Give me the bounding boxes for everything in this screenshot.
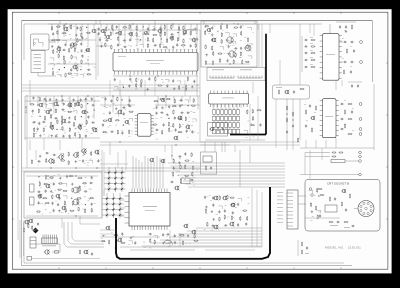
resistor R129	[205, 44, 206, 49]
resistor R232	[231, 204, 236, 205]
value label	[132, 82, 133, 85]
wire	[279, 60, 281, 85]
value label	[342, 57, 344, 60]
resistor R111	[173, 110, 174, 115]
IF shield box	[31, 51, 45, 73]
capacitor C51	[61, 109, 65, 111]
node junction	[112, 29, 113, 30]
resistor R146	[252, 116, 253, 121]
capacitor C125	[82, 159, 84, 163]
node junction	[79, 39, 80, 40]
resistor R176	[53, 159, 54, 164]
capacitor C113	[350, 70, 352, 74]
value label	[37, 128, 38, 131]
value label	[210, 199, 212, 202]
wire	[373, 84, 375, 150]
value label	[153, 107, 155, 110]
resistor R38	[110, 31, 111, 36]
value label	[186, 242, 187, 245]
value label	[118, 73, 119, 76]
wire	[80, 75, 84, 78]
wire	[23, 222, 25, 256]
wire	[115, 167, 117, 192]
capacitor C132	[45, 190, 47, 194]
value label	[217, 31, 219, 34]
value label	[143, 241, 145, 244]
resistor R198	[72, 201, 73, 206]
value label	[103, 112, 105, 115]
value label	[44, 203, 46, 206]
wire	[183, 180, 285, 182]
value label	[38, 164, 39, 167]
wire	[48, 23, 96, 25]
node junction	[87, 95, 88, 96]
value label	[35, 228, 37, 231]
wire	[109, 80, 111, 96]
value label	[132, 133, 133, 136]
resistor R158	[311, 66, 316, 67]
resistor R177	[60, 160, 65, 161]
node junction	[59, 52, 60, 53]
diode D10	[107, 187, 111, 191]
resistor R203	[84, 208, 85, 213]
capacitor C110	[343, 61, 347, 63]
capacitor C124	[37, 160, 41, 162]
resistor R219	[180, 235, 185, 236]
sub-circuit outline	[201, 152, 217, 174]
wire	[254, 21, 256, 25]
wire	[119, 193, 121, 218]
resistor R91	[69, 127, 70, 132]
wire	[22, 87, 200, 89]
value label	[56, 71, 58, 74]
capacitor C139	[53, 209, 55, 213]
value label	[171, 171, 173, 174]
resistor R163	[348, 118, 353, 119]
node junction	[47, 175, 48, 176]
capacitor C86	[174, 128, 176, 132]
wire	[309, 150, 311, 179]
wire	[204, 142, 206, 152]
value label	[304, 103, 306, 106]
node junction	[38, 176, 39, 177]
value label	[157, 48, 158, 51]
resistor R65	[140, 83, 141, 88]
resistor R120	[204, 26, 209, 27]
capacitor C1	[76, 26, 78, 30]
capacitor C65	[110, 99, 112, 103]
ground	[80, 50, 82, 53]
wire	[339, 41, 343, 43]
capacitor C26	[117, 43, 119, 47]
wire	[22, 20, 372, 22]
wire	[216, 104, 218, 108]
value label	[277, 218, 283, 221]
value label	[194, 42, 196, 45]
value label	[121, 130, 123, 133]
value label	[190, 30, 191, 33]
wire	[237, 198, 241, 201]
diode D8	[114, 182, 118, 186]
capacitor C15	[159, 27, 161, 31]
diode D21	[118, 208, 122, 212]
value label	[168, 73, 169, 76]
resistor R251	[329, 221, 334, 222]
value label	[184, 90, 185, 93]
value label	[344, 226, 350, 229]
transistor Q16	[38, 103, 43, 108]
value label	[137, 73, 138, 76]
value label	[86, 128, 88, 131]
value label	[164, 73, 165, 76]
wire	[32, 258, 101, 260]
transistor Q24	[61, 119, 66, 124]
resistor R123	[233, 27, 238, 28]
resistor R162	[348, 103, 353, 104]
ferrite bead FB1	[164, 241, 171, 244]
wire	[200, 144, 300, 146]
value label	[205, 26, 207, 29]
value label	[61, 118, 63, 121]
resistor R170	[68, 152, 69, 157]
value label	[82, 154, 84, 157]
wire	[305, 217, 340, 219]
value label	[142, 33, 144, 36]
value label	[222, 97, 234, 100]
wire	[104, 96, 106, 108]
value label	[258, 132, 259, 135]
resistor R131	[247, 44, 248, 49]
value label	[81, 111, 83, 114]
wire	[244, 131, 248, 134]
wire	[29, 140, 31, 150]
value label	[230, 45, 231, 48]
value label	[100, 42, 102, 45]
capacitor C102	[304, 45, 308, 47]
capacitor C158	[212, 203, 214, 207]
section outline	[24, 172, 102, 218]
resistor R84	[61, 120, 62, 125]
node junction	[58, 105, 59, 106]
wire	[48, 63, 96, 65]
connector pin P3	[359, 103, 362, 106]
resistor R144	[252, 109, 253, 114]
resistor R21	[64, 60, 65, 65]
resistor R160	[346, 49, 347, 54]
resistor R11	[56, 39, 61, 40]
transistor Q59	[117, 238, 122, 243]
capacitor C53	[87, 115, 89, 119]
microcontroller U6	[125, 189, 171, 231]
value label	[60, 128, 62, 131]
value label	[73, 125, 75, 128]
resistor R216	[28, 223, 29, 228]
resistor R175	[46, 158, 47, 163]
value label	[55, 189, 56, 192]
wire	[341, 80, 343, 86]
wire	[305, 152, 330, 154]
wire	[74, 64, 78, 67]
capacitor C8	[81, 54, 83, 58]
wire	[301, 36, 303, 72]
diode D18	[118, 202, 122, 206]
resistor R238	[240, 216, 241, 221]
value label	[73, 107, 74, 110]
resistor R249	[341, 202, 342, 207]
value label	[69, 72, 71, 75]
value label	[57, 47, 59, 50]
resistor R16	[68, 48, 69, 53]
resistor R237	[231, 215, 232, 220]
resistor R209	[185, 164, 186, 169]
capacitor C121	[305, 124, 307, 128]
resistor R14	[73, 44, 78, 45]
value label	[84, 162, 86, 165]
resistor R27	[86, 74, 91, 75]
value label	[277, 191, 283, 194]
value label	[88, 197, 90, 200]
jack J1	[27, 257, 32, 261]
wire	[151, 242, 262, 244]
node junction	[94, 110, 95, 111]
wire	[115, 113, 119, 116]
svg-text:MODEL NO. : 21SL/51: MODEL NO. : 21SL/51	[325, 246, 361, 250]
capacitor C117	[340, 118, 344, 120]
value label	[39, 202, 41, 205]
resistor R235	[219, 217, 220, 222]
resistor R254	[310, 202, 311, 207]
node junction	[45, 100, 46, 101]
capacitor C34	[148, 77, 150, 81]
wire	[74, 73, 78, 76]
ground	[161, 106, 163, 109]
value label	[74, 66, 75, 69]
value label	[240, 39, 242, 42]
diode D3	[120, 171, 124, 175]
resistor R136	[205, 60, 206, 65]
transistor Q33	[226, 36, 234, 43]
fuse F1	[55, 251, 59, 254]
value label	[252, 136, 254, 139]
ground	[71, 183, 73, 186]
capacitor C43	[73, 98, 75, 102]
value label	[249, 42, 251, 45]
value label	[73, 110, 75, 113]
value label	[67, 104, 69, 107]
diode D9	[120, 182, 124, 186]
value label	[55, 200, 56, 203]
wire	[309, 24, 311, 33]
inductor L1	[331, 160, 345, 163]
value label	[166, 48, 168, 51]
resistor R143	[247, 109, 248, 114]
value label	[84, 38, 85, 41]
resistor R161	[343, 70, 344, 75]
value label	[128, 243, 130, 246]
wire	[150, 160, 152, 189]
value label	[192, 160, 194, 163]
value label	[344, 123, 346, 126]
value label	[179, 233, 181, 236]
wire	[139, 45, 143, 48]
value label	[87, 56, 89, 59]
value label	[34, 67, 42, 70]
resistor R212	[184, 175, 189, 176]
value label	[179, 131, 181, 134]
value label	[196, 48, 197, 51]
connector pin P8	[359, 155, 362, 158]
wire	[142, 24, 144, 45]
wire	[102, 198, 124, 200]
value label	[133, 48, 134, 51]
transistor Q6	[91, 29, 96, 34]
ground	[50, 135, 52, 138]
wire	[200, 141, 300, 143]
value label	[145, 73, 146, 76]
value label	[69, 25, 71, 28]
wire	[103, 152, 105, 196]
resistor R206	[173, 158, 174, 163]
wire	[228, 104, 230, 108]
capacitor C42	[55, 98, 57, 102]
wire	[299, 99, 301, 140]
wire	[214, 142, 216, 152]
capacitor C45	[84, 98, 88, 100]
diode D6	[120, 176, 124, 180]
wire	[53, 96, 55, 114]
value label	[63, 129, 64, 132]
value label	[180, 48, 181, 51]
resistor R208	[180, 165, 181, 170]
resistor R47	[147, 37, 148, 42]
wire	[96, 23, 200, 25]
value label	[189, 129, 190, 132]
transistor Q45	[94, 150, 100, 155]
value label	[194, 184, 195, 187]
tuner module outline	[31, 34, 50, 50]
wire	[104, 177, 126, 179]
capacitor C83	[179, 117, 183, 119]
wire	[75, 24, 77, 49]
resistor R6	[57, 30, 58, 35]
value label	[247, 43, 248, 46]
resistor R250	[349, 194, 350, 199]
wire	[247, 27, 251, 30]
value label	[122, 124, 124, 127]
value label	[277, 199, 283, 202]
transistor Q13	[169, 36, 174, 41]
value label	[39, 115, 41, 118]
resistor R130	[212, 46, 213, 51]
resistor R83	[57, 119, 58, 124]
value label	[250, 123, 251, 126]
value label	[116, 246, 118, 249]
wire	[104, 188, 126, 190]
wire	[142, 245, 262, 247]
value label	[350, 65, 352, 68]
wire	[177, 81, 181, 84]
resistor R57	[163, 47, 168, 48]
value label	[94, 100, 95, 103]
resistor R195	[89, 198, 94, 199]
resistor R90	[62, 126, 63, 131]
resistor R151	[286, 118, 287, 123]
resistor R97	[117, 97, 118, 102]
value label	[119, 31, 120, 33]
transistor Q39	[284, 90, 289, 95]
value label	[146, 59, 164, 62]
resistor R56	[160, 43, 161, 48]
transistor Q42	[58, 154, 64, 159]
wire	[205, 249, 255, 251]
wire	[73, 111, 77, 114]
capacitor C120	[309, 104, 311, 108]
wire	[61, 218, 63, 228]
capacitor C54	[32, 121, 36, 123]
wire	[120, 215, 125, 217]
capacitor C168	[334, 197, 336, 201]
value label	[247, 196, 249, 199]
transistor Q18	[53, 102, 58, 107]
wire	[261, 192, 263, 247]
transistor Q1	[63, 27, 69, 32]
wire	[87, 24, 89, 46]
ground	[61, 99, 63, 102]
transistor Q65	[213, 225, 219, 230]
value label	[193, 176, 195, 179]
value label	[153, 48, 154, 51]
resistor R85	[73, 122, 74, 127]
wire	[19, 220, 21, 258]
capacitor C164	[224, 224, 228, 226]
resistor R125	[221, 32, 222, 37]
resistor R202	[78, 207, 79, 212]
value label	[84, 51, 86, 54]
resistor R87	[34, 127, 35, 132]
resistor R78	[44, 116, 45, 121]
capacitor C150	[166, 233, 170, 235]
resistor R67	[179, 85, 180, 90]
resistor R193	[52, 194, 53, 199]
resistor R61	[141, 79, 142, 84]
value label	[114, 73, 115, 76]
ground	[211, 34, 213, 37]
value label	[33, 229, 35, 232]
resistor R70	[30, 104, 35, 105]
capacitor C84	[163, 123, 165, 127]
connector pin P4	[359, 118, 362, 121]
wire	[121, 167, 123, 192]
value label	[38, 180, 39, 183]
transistor Q47	[72, 199, 80, 206]
capacitor C105	[304, 66, 308, 68]
value label	[125, 48, 126, 51]
node junction	[128, 104, 129, 105]
wire	[61, 96, 63, 104]
wire	[171, 165, 286, 167]
capacitor C106	[339, 25, 341, 29]
wire	[106, 193, 108, 218]
value label	[129, 48, 130, 51]
capacitor C78	[155, 112, 157, 116]
capacitor C38	[166, 84, 168, 88]
ground	[68, 117, 70, 120]
wire	[119, 80, 121, 96]
capacitor C127	[66, 175, 68, 179]
connector pin P6	[359, 133, 362, 136]
transistor Q66	[229, 222, 235, 227]
resistor R213	[192, 172, 193, 177]
